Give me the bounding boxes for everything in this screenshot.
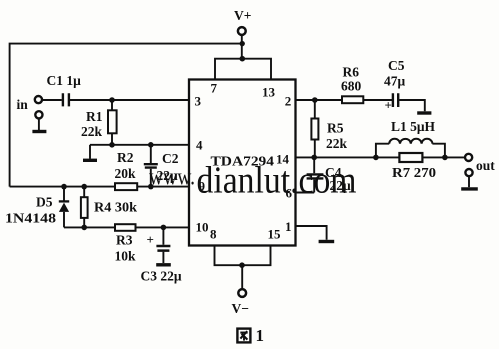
svg-text:6: 6 bbox=[286, 186, 293, 201]
svg-text:out: out bbox=[476, 158, 495, 173]
wire C5 to ground bbox=[399, 100, 425, 111]
svg-text:22k: 22k bbox=[326, 136, 348, 151]
node junction bracket bbox=[240, 56, 246, 62]
node in lower terminal bbox=[35, 111, 42, 118]
svg-text:+: + bbox=[147, 232, 154, 247]
svg-text:C3 22μ: C3 22μ bbox=[141, 269, 182, 284]
svg-text:R4 30k: R4 30k bbox=[94, 200, 138, 215]
svg-text:3: 3 bbox=[195, 94, 202, 109]
wire V+ to bracket bbox=[241, 35, 243, 58]
svg-text:1: 1 bbox=[256, 326, 265, 345]
svg-text:1N4148: 1N4148 bbox=[5, 211, 56, 226]
capacitor C3 bbox=[162, 227, 164, 263]
ground out bbox=[461, 187, 478, 190]
ground C3 bbox=[156, 263, 171, 266]
watermark www.dianlut.com bbox=[149, 160, 357, 202]
wire R6 to C5 bbox=[363, 99, 392, 101]
svg-text:1: 1 bbox=[285, 219, 292, 234]
svg-text:20k: 20k bbox=[115, 166, 137, 181]
svg-text:14: 14 bbox=[276, 152, 290, 167]
svg-text:V+: V+ bbox=[234, 8, 251, 23]
node V- terminal bbox=[238, 289, 246, 297]
node junction R5 top bbox=[312, 97, 318, 103]
svg-text:10k: 10k bbox=[115, 249, 137, 264]
node junction R4 top bbox=[81, 184, 87, 190]
node out terminal bbox=[465, 154, 472, 161]
svg-text:22μ: 22μ bbox=[330, 178, 352, 193]
svg-text:8: 8 bbox=[210, 227, 217, 242]
svg-text:V−: V− bbox=[232, 301, 249, 316]
node junction L1 right bbox=[442, 155, 448, 161]
capacitor C5 bbox=[393, 93, 398, 107]
wire to V- terminal bbox=[241, 265, 243, 288]
svg-text:15: 15 bbox=[268, 227, 282, 242]
wire pin9 row bbox=[10, 186, 189, 188]
resistor R2 bbox=[115, 183, 137, 190]
node in terminal bbox=[35, 96, 42, 103]
svg-text:L1 5μH: L1 5μH bbox=[391, 119, 436, 134]
resistor R5 bbox=[314, 100, 316, 157]
svg-text:10: 10 bbox=[196, 220, 209, 235]
wire pin6 bbox=[296, 192, 315, 194]
svg-text:R1: R1 bbox=[86, 109, 103, 124]
op-amp U1 TDA7294 bbox=[189, 80, 296, 246]
svg-text:4: 4 bbox=[196, 138, 203, 153]
node V+ terminal bbox=[238, 27, 246, 35]
svg-text:+: + bbox=[385, 98, 392, 113]
capacitor C2 bbox=[150, 145, 152, 187]
resistor R4 bbox=[83, 187, 85, 228]
svg-text:in: in bbox=[17, 97, 29, 112]
wire pin4 row bbox=[90, 144, 189, 146]
svg-text:C5: C5 bbox=[388, 58, 405, 73]
svg-text:680: 680 bbox=[341, 79, 362, 94]
capacitor C4 bbox=[313, 157, 315, 192]
wire ground stub left bbox=[89, 145, 91, 159]
svg-text:R3: R3 bbox=[116, 233, 133, 248]
diode D5 bbox=[63, 187, 65, 228]
svg-text:2: 2 bbox=[285, 94, 292, 109]
svg-text:13: 13 bbox=[262, 85, 276, 100]
wire C1 to pin3 bbox=[70, 99, 189, 101]
wire feedback top-left bbox=[10, 44, 243, 187]
svg-text:R7 270: R7 270 bbox=[392, 165, 436, 180]
node junction R1 top bbox=[109, 97, 115, 103]
svg-text:TDA7294: TDA7294 bbox=[211, 155, 275, 170]
wire in to C1 bbox=[42, 99, 61, 101]
wire pin14 row bbox=[296, 156, 465, 158]
inductor L1 bbox=[376, 144, 389, 158]
capacitor C1 bbox=[63, 93, 69, 106]
ground R1 bbox=[83, 159, 97, 162]
label figure 1 caption bbox=[237, 329, 250, 343]
wire top bracket pins 7,13 bbox=[215, 59, 271, 80]
svg-text:22μ: 22μ bbox=[157, 168, 179, 183]
node junction L1 left bbox=[373, 155, 379, 161]
node junction V+ bbox=[240, 41, 245, 46]
node junction R1 bottom bbox=[109, 142, 115, 148]
wire in ground stub bbox=[38, 119, 40, 130]
node junction D5 top bbox=[61, 184, 67, 190]
svg-text:C2: C2 bbox=[162, 151, 179, 166]
svg-text:7: 7 bbox=[211, 81, 218, 96]
node junction C2 bottom bbox=[148, 184, 154, 190]
node junction R4 bottom bbox=[81, 225, 87, 231]
svg-text:R2: R2 bbox=[117, 150, 134, 165]
wire pin1 to ground bbox=[296, 226, 327, 240]
wire pin10 row bbox=[64, 226, 189, 228]
ground input bbox=[32, 130, 46, 133]
node junction C3 top bbox=[161, 225, 167, 231]
svg-text:C1 1μ: C1 1μ bbox=[47, 73, 82, 88]
resistor R1 bbox=[111, 100, 113, 145]
resistor R7 bbox=[399, 153, 422, 162]
wire out ground stub bbox=[468, 177, 470, 188]
ground C5 bbox=[417, 111, 431, 114]
node junction C2 top bbox=[148, 142, 154, 148]
svg-text:47μ: 47μ bbox=[384, 74, 406, 89]
svg-text:R5: R5 bbox=[327, 121, 344, 136]
wire bottom bracket pins 8,15 bbox=[215, 246, 271, 266]
svg-text:22k: 22k bbox=[81, 124, 103, 139]
node junction V- bbox=[239, 262, 245, 268]
resistor R6 bbox=[342, 96, 363, 103]
node junction R5 bottom bbox=[311, 155, 317, 161]
resistor R3 bbox=[115, 224, 136, 231]
ground pin1 bbox=[319, 240, 335, 243]
wire pin2 to R6 bbox=[296, 99, 343, 101]
svg-text:R6: R6 bbox=[343, 65, 360, 80]
svg-text:D5: D5 bbox=[36, 195, 53, 210]
node out lower terminal bbox=[465, 169, 472, 176]
svg-text:9: 9 bbox=[199, 179, 206, 194]
